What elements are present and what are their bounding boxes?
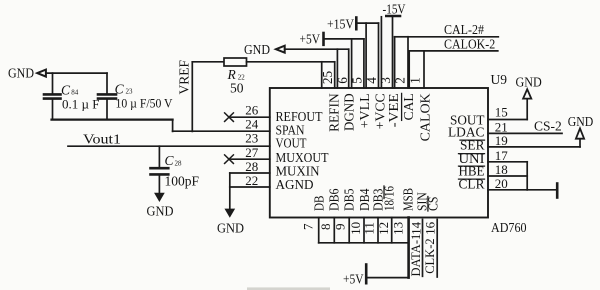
wire pin 14 down to +5V bbox=[407, 218, 410, 278]
wire VOUT net to pin 23 bbox=[68, 145, 270, 147]
wire data bus bottom bbox=[319, 242, 409, 244]
ground arrow top-left bbox=[37, 70, 46, 77]
wire R22 right to pin 25 bbox=[247, 61, 335, 63]
svg-text:C: C bbox=[115, 82, 125, 97]
wire C28 top lead bbox=[158, 146, 160, 167]
label C28 bbox=[165, 153, 183, 168]
pin label DB bbox=[313, 196, 328, 212]
pin label DB5 bbox=[342, 189, 357, 212]
svg-text:DB6: DB6 bbox=[327, 189, 342, 212]
underline DATA-1 bbox=[422, 220, 424, 277]
pin number 21 bbox=[495, 119, 508, 134]
ground GND near R22 bbox=[244, 42, 270, 57]
pin number 3 bbox=[378, 77, 393, 84]
pin label MSB bbox=[401, 188, 416, 211]
pin label MUXIN bbox=[276, 165, 320, 180]
pin number 5 bbox=[350, 77, 365, 84]
svg-text:6: 6 bbox=[335, 77, 350, 84]
svg-text:2: 2 bbox=[393, 77, 408, 84]
pin label SIN bbox=[415, 192, 430, 211]
underline CLK-2 bbox=[436, 220, 438, 278]
pin label DGND bbox=[343, 93, 358, 131]
svg-text:CAL: CAL bbox=[402, 93, 417, 120]
pin number 12 bbox=[376, 222, 391, 235]
wire C84 top lead bbox=[52, 73, 54, 94]
svg-text:DGND: DGND bbox=[343, 93, 358, 131]
pin number 4 bbox=[364, 77, 379, 84]
pin label CS with overline bbox=[427, 197, 442, 212]
pin label +VLL bbox=[358, 93, 373, 128]
pin 9 box edge bbox=[333, 218, 335, 243]
pin number 19 bbox=[495, 133, 508, 148]
wire top rail caps bbox=[46, 72, 107, 74]
svg-text:U9: U9 bbox=[491, 72, 508, 87]
value 0.1uF bbox=[62, 97, 99, 112]
svg-text:DB5: DB5 bbox=[342, 189, 357, 212]
pin 25 box bbox=[321, 62, 323, 88]
ground arrow up right 1 bbox=[523, 89, 531, 98]
pin number 9 bbox=[332, 224, 347, 231]
ground arrow up right 2 bbox=[576, 128, 584, 138]
svg-text:CALOK-2: CALOK-2 bbox=[444, 37, 495, 52]
pin 26 wire with no-connect X bbox=[231, 116, 270, 118]
svg-text:24: 24 bbox=[245, 117, 259, 132]
pin label CAL bbox=[402, 93, 417, 120]
pin number 13 bbox=[391, 222, 406, 235]
pin label REFOUT bbox=[276, 110, 323, 125]
signal CAL-2# label bbox=[444, 22, 484, 37]
svg-text:50: 50 bbox=[230, 81, 244, 96]
svg-text:13: 13 bbox=[391, 222, 406, 235]
svg-text:10 µ F/50 V: 10 µ F/50 V bbox=[116, 96, 174, 111]
label R22 bbox=[227, 67, 246, 82]
svg-text:4: 4 bbox=[364, 77, 379, 84]
ground GND top-left bbox=[8, 66, 34, 81]
svg-text:15: 15 bbox=[495, 105, 508, 120]
wire SPAN net to pin 24 bbox=[173, 130, 270, 132]
wire pin 19 up to ground bbox=[579, 139, 581, 147]
pin label MUXOUT bbox=[276, 151, 329, 166]
capacitor C23 bbox=[98, 94, 116, 98]
svg-text:AGND: AGND bbox=[276, 178, 314, 193]
wire pin 15 SOUT bbox=[488, 119, 527, 121]
pin number 27 bbox=[245, 145, 259, 160]
pin number 25 bbox=[320, 71, 335, 85]
pin number 14 bbox=[409, 221, 424, 235]
svg-text:22: 22 bbox=[245, 173, 258, 188]
power +15V bar bbox=[355, 18, 358, 30]
svg-text:23: 23 bbox=[126, 88, 134, 96]
wire to terminal bar bbox=[527, 189, 557, 191]
wire C84 bottom lead bbox=[52, 100, 54, 120]
wire CAL-2# to pin 2 bbox=[408, 36, 498, 38]
pin 1 box bbox=[408, 51, 410, 88]
pin 3 box bbox=[380, 17, 382, 88]
pin 13 box edge bbox=[391, 218, 393, 243]
svg-text:-15V: -15V bbox=[383, 2, 406, 17]
ground GND under C28 bbox=[147, 204, 174, 219]
pin label LDAC bbox=[448, 126, 485, 141]
svg-text:27: 27 bbox=[245, 145, 259, 160]
pin 8 box edge bbox=[318, 218, 320, 243]
pin label DB6 bbox=[327, 189, 342, 212]
wire pin 19 SER bbox=[488, 146, 580, 148]
wire C23 bottom lead bbox=[106, 100, 108, 120]
pin 11 box edge bbox=[363, 218, 365, 243]
svg-text:AD760: AD760 bbox=[491, 220, 527, 235]
pin number 7 bbox=[301, 223, 316, 230]
pin 6 box bbox=[336, 49, 338, 88]
value 10uF/50V bbox=[116, 96, 174, 111]
resistor R22 bbox=[224, 58, 247, 66]
wire R22 left bbox=[192, 61, 224, 63]
pin number 16 bbox=[422, 221, 437, 235]
signal CALOK-2 label bbox=[444, 37, 495, 52]
pin label SER with overline bbox=[460, 139, 485, 154]
svg-text:18: 18 bbox=[495, 162, 508, 177]
pin number 26 bbox=[245, 103, 259, 118]
pin number 11 bbox=[361, 222, 376, 235]
svg-text:+5V: +5V bbox=[300, 32, 321, 47]
svg-text:3: 3 bbox=[378, 77, 393, 84]
label C23 bbox=[115, 82, 133, 97]
signal DATA-1 label bbox=[409, 234, 423, 277]
wire junction pins 17-18-20 bbox=[526, 162, 528, 190]
pin label CLR with overline bbox=[459, 178, 486, 193]
wire pin 18 HBE bbox=[488, 175, 527, 177]
wire +15V to pin 4 bbox=[357, 22, 378, 24]
svg-text:5: 5 bbox=[350, 77, 365, 84]
svg-text:20: 20 bbox=[495, 176, 508, 191]
power +5V label bbox=[300, 32, 321, 47]
ground arrow under pin 22 bbox=[226, 209, 235, 216]
signal CLK-2 label bbox=[423, 238, 437, 273]
svg-text:C: C bbox=[61, 83, 71, 98]
pin label +VCC bbox=[374, 93, 389, 129]
svg-text:+15V: +15V bbox=[327, 17, 354, 32]
svg-text:GND: GND bbox=[147, 204, 174, 219]
caption remnant at bottom bbox=[247, 287, 330, 290]
wire pin 20 CLR bbox=[488, 189, 527, 191]
ground arrow near R22 bbox=[276, 46, 285, 53]
svg-text:1: 1 bbox=[408, 77, 423, 84]
pin number 20 bbox=[495, 176, 508, 191]
pin 5 box bbox=[351, 39, 353, 88]
label C84 bbox=[61, 83, 79, 98]
pin label UNI with overline bbox=[459, 152, 485, 167]
value 50 bbox=[230, 81, 244, 96]
pin number 15 bbox=[495, 105, 508, 120]
pin label SPAN bbox=[276, 123, 305, 138]
power -15V bar bbox=[386, 15, 400, 18]
wire pin 17 UNI bbox=[488, 161, 527, 163]
svg-text:CLK-2: CLK-2 bbox=[423, 238, 437, 273]
svg-text:25: 25 bbox=[320, 71, 335, 85]
pin label REFIN bbox=[328, 93, 343, 131]
wire CALOK-2 to pin 1 bbox=[424, 50, 498, 52]
wire +5V to pin 14 bbox=[367, 277, 408, 279]
pin number 6 bbox=[335, 77, 350, 84]
ground arrow under C28 bbox=[155, 193, 164, 200]
svg-text:MSB: MSB bbox=[401, 188, 416, 211]
wire pin 21 LDAC CS-2 bbox=[488, 132, 562, 134]
wire step down bbox=[172, 120, 174, 132]
svg-text:12: 12 bbox=[376, 222, 391, 235]
wire C23 top lead bbox=[106, 73, 108, 94]
label AD760 bbox=[491, 220, 527, 235]
svg-text:18/16: 18/16 bbox=[383, 186, 398, 211]
pin label SOUT bbox=[450, 113, 485, 128]
svg-text:CS: CS bbox=[427, 197, 442, 212]
svg-text:84: 84 bbox=[71, 89, 79, 97]
svg-text:CAL-2#: CAL-2# bbox=[444, 22, 484, 37]
pin number 8 bbox=[318, 224, 333, 231]
svg-text:7: 7 bbox=[301, 223, 316, 230]
svg-text:Vout1: Vout1 bbox=[83, 132, 121, 147]
pin number 22 bbox=[245, 173, 258, 188]
terminal bar bbox=[556, 184, 559, 198]
pin label DB3 bbox=[372, 189, 387, 212]
pin number 24 bbox=[245, 117, 259, 132]
svg-text:16: 16 bbox=[422, 221, 437, 235]
power +5V bottom label bbox=[343, 272, 364, 287]
svg-text:9: 9 bbox=[332, 224, 347, 231]
pin label CALOK bbox=[419, 93, 434, 141]
label U9 bbox=[491, 72, 508, 87]
capacitor C28 bbox=[151, 168, 169, 174]
svg-text:CALOK: CALOK bbox=[419, 93, 434, 141]
svg-text:+5V: +5V bbox=[343, 272, 364, 287]
svg-text:GND: GND bbox=[8, 66, 34, 81]
wire pin 15 up to ground bbox=[526, 99, 528, 120]
pin label DB4 bbox=[358, 189, 373, 212]
pin number 17 bbox=[495, 148, 509, 163]
svg-text:CS-2: CS-2 bbox=[534, 119, 562, 134]
ground GND right 1 bbox=[516, 75, 543, 90]
pin 27 wire with no-connect X bbox=[231, 158, 270, 160]
signal CS-2 label bbox=[534, 119, 562, 134]
pin number 1 bbox=[408, 77, 423, 84]
wire C28 bottom lead bbox=[158, 175, 160, 193]
pin 10 box edge bbox=[348, 218, 350, 243]
svg-text:VREF: VREF bbox=[177, 60, 192, 95]
svg-text:GND: GND bbox=[568, 114, 594, 129]
svg-text:100pF: 100pF bbox=[165, 174, 200, 189]
svg-text:GND: GND bbox=[244, 42, 270, 57]
pin number 23 bbox=[245, 131, 258, 146]
svg-text:28: 28 bbox=[175, 160, 183, 168]
pin 2 box bbox=[394, 37, 396, 88]
power +5V bottom bar bbox=[365, 265, 368, 284]
pin number 28 bbox=[245, 159, 258, 174]
pin 4 box bbox=[365, 23, 367, 88]
pin label HBE with overline bbox=[459, 165, 485, 180]
pin label 18/16 with partial overline bbox=[383, 186, 398, 211]
value 100pF bbox=[165, 174, 200, 189]
svg-text:DB: DB bbox=[313, 196, 328, 212]
ground GND under pin 22 bbox=[217, 221, 244, 236]
svg-text:23: 23 bbox=[245, 131, 258, 146]
node VREF vertical wire bbox=[191, 62, 193, 132]
svg-text:C: C bbox=[165, 153, 175, 168]
wire pin 22 bbox=[230, 186, 270, 188]
wire GND to pin 6 bbox=[285, 48, 349, 50]
svg-text:17: 17 bbox=[495, 148, 509, 163]
svg-text:+VLL: +VLL bbox=[358, 93, 373, 128]
svg-text:VOUT: VOUT bbox=[276, 137, 307, 152]
wire AGND to ground bbox=[229, 173, 231, 209]
power -15V label bbox=[383, 2, 406, 17]
power +5V bar bbox=[322, 33, 325, 45]
power +15V label bbox=[327, 17, 354, 32]
svg-text:0.1 µ F: 0.1 µ F bbox=[62, 97, 99, 112]
svg-text:11: 11 bbox=[361, 222, 376, 235]
svg-text:REFIN: REFIN bbox=[328, 93, 343, 131]
wire +5V to pin 5 bbox=[325, 38, 364, 40]
pin number 10 bbox=[348, 222, 363, 235]
ground GND right 2 bbox=[568, 114, 594, 129]
svg-text:8: 8 bbox=[318, 224, 333, 231]
pin label AGND bbox=[276, 178, 314, 193]
wire caps bottom rail bbox=[52, 118, 173, 120]
svg-text:GND: GND bbox=[217, 221, 244, 236]
label VREF bbox=[177, 60, 192, 95]
pin number 2 bbox=[393, 77, 408, 84]
pin number 18 bbox=[495, 162, 508, 177]
svg-text:19: 19 bbox=[495, 133, 508, 148]
overline CAL bbox=[401, 93, 403, 120]
svg-text:28: 28 bbox=[245, 159, 258, 174]
pin label VOUT bbox=[276, 137, 307, 152]
svg-text:GND: GND bbox=[516, 75, 543, 90]
pin label -VEE bbox=[387, 93, 402, 127]
svg-text:14: 14 bbox=[409, 221, 424, 235]
wire pin 28 bbox=[230, 172, 270, 174]
node Vout1 label bbox=[83, 132, 121, 147]
pin 12 box edge bbox=[377, 218, 379, 243]
svg-text:26: 26 bbox=[245, 103, 259, 118]
svg-text:-VEE: -VEE bbox=[387, 93, 402, 127]
op-amp U9 AD760 IC body bbox=[270, 88, 488, 218]
svg-text:DATA-1: DATA-1 bbox=[409, 234, 423, 277]
capacitor C84 bbox=[44, 94, 61, 98]
